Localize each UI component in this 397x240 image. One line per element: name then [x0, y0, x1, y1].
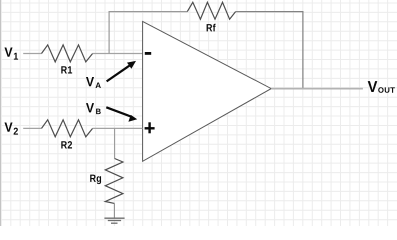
label R2: [61, 141, 72, 148]
wire junction down to Rg: [114, 128, 116, 158]
label Rg: [90, 175, 101, 185]
arrow VB pointer: [106, 107, 137, 122]
label R1: [61, 66, 72, 73]
resistor R1: [42, 45, 93, 62]
wire R1 to op-amp inverting input: [93, 53, 143, 55]
arrow VA pointer: [107, 61, 136, 82]
node VA label: [86, 77, 101, 88]
resistor Rf: [187, 2, 235, 19]
wire R2 to op-amp non-inverting input: [93, 127, 143, 129]
node V1: [4, 47, 18, 59]
node VOUT: [368, 81, 395, 93]
ground: [104, 218, 124, 223]
wire Rf to output node: [236, 12, 303, 89]
wire V1 to R1: [23, 53, 41, 55]
wire feedback riser from inverting node: [108, 12, 110, 54]
wire Rg to ground: [113, 203, 115, 217]
resistor Rg: [105, 159, 123, 204]
wire feedback top left segment: [109, 11, 188, 13]
label Rf: [207, 24, 216, 32]
resistor R2: [42, 120, 93, 137]
op-amp inverting input minus: [145, 52, 151, 55]
node V2: [4, 122, 17, 134]
op-amp U1: [143, 21, 272, 161]
node VB label: [86, 103, 101, 114]
wire V2 to R2: [23, 127, 41, 129]
wire output to VOUT: [271, 88, 363, 90]
op-amp non-inverting input plus: [145, 122, 155, 133]
